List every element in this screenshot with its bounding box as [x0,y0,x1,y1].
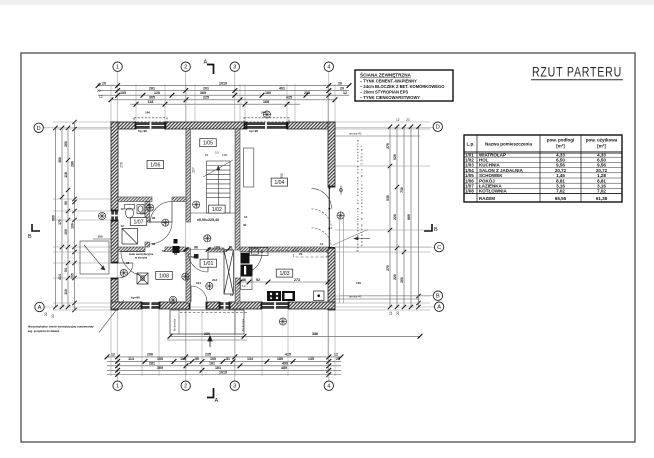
grid bubble 1 top [113,62,122,71]
vent grille south wall [169,296,176,303]
top dimension row axis spans [98,88,349,93]
north window 2 sashes [244,122,289,129]
svg-text:1019: 1019 [219,370,227,374]
kitchen fridge [241,253,250,264]
door boiler west swing [118,263,133,278]
right dimension column r3 [402,125,406,310]
svg-text:369: 369 [157,366,163,370]
extension lines left [53,122,111,310]
vent grille terrace [337,212,344,219]
svg-text:1/06: 1/06 [150,163,160,169]
grid bubble 3 top [230,62,239,71]
svg-text:12: 12 [396,118,400,122]
svg-text:54: 54 [64,268,68,272]
salon balcony arrow [354,237,370,240]
svg-text:535: 535 [386,195,390,201]
svg-text:20: 20 [97,83,101,87]
svg-text:12: 12 [334,353,338,357]
svg-text:pow. podłogi: pow. podłogi [547,138,575,143]
svg-text:– 24cm BLOCZEK Z BET. KOMÓRKO: – 24cm BLOCZEK Z BET. KOMÓRKOWEGO [360,84,445,89]
svg-text:101: 101 [196,281,201,285]
balcony door swing solid [312,189,332,209]
room label 1/07 lazienka [130,217,147,225]
svg-text:180: 180 [265,91,271,95]
bottom dimension row spans [107,363,341,368]
extension lines right [335,122,430,310]
vent grille above north wall [263,111,270,118]
svg-text:– 20cm STYROPIAN EPS: – 20cm STYROPIAN EPS [360,89,409,94]
kitchen stove black [267,291,281,301]
svg-text:278: 278 [120,162,124,168]
svg-text:20: 20 [102,81,106,85]
svg-text:B: B [434,227,438,233]
svg-text:100: 100 [210,357,216,361]
svg-text:91: 91 [205,153,209,157]
vent grille porch [279,318,286,325]
top dimension row window marks [130,102,300,107]
svg-text:±0,00=225,40: ±0,00=225,40 [197,218,219,222]
svg-text:– TYNK CIENKOWARSTWOWY: – TYNK CIENKOWARSTWOWY [360,95,420,100]
grid bubble D right [433,122,442,131]
vestibule wardrobe with X [224,250,233,294]
svg-text:kp=90: kp=90 [267,296,276,300]
svg-text:273: 273 [294,278,300,282]
right dimension column r5 [416,125,420,310]
svg-text:3: 3 [233,384,236,390]
svg-text:100: 100 [214,245,220,249]
vent grille outside west [98,212,105,219]
svg-text:1/03: 1/03 [279,271,289,277]
svg-text:ŚCIANA ZEWNĘTRZNA: ŚCIANA ZEWNĘTRZNA [360,72,412,78]
svg-text:1/08: 1/08 [465,189,474,194]
right dimension column r2 [395,125,399,310]
interior wall: bedroom/bathroom divider [118,197,152,202]
svg-text:100: 100 [64,229,68,235]
svg-text:20: 20 [97,89,101,93]
south kitchen window sashes [261,302,290,309]
bottom dimension row overall 1019 [107,372,341,377]
svg-text:414: 414 [58,274,62,280]
svg-text:118: 118 [64,172,68,178]
svg-text:489: 489 [281,366,287,370]
svg-text:180: 180 [277,357,283,361]
interior dimension specks [121,203,324,297]
bathroom toilet [125,205,135,219]
svg-text:260: 260 [400,277,404,283]
top dimension row walls [109,97,338,102]
svg-text:20: 20 [44,312,48,316]
svg-text:730: 730 [400,187,404,193]
grid bubble D left [34,123,43,132]
note leader line [99,300,124,333]
svg-text:11: 11 [320,242,324,246]
svg-text:12: 12 [111,353,115,357]
vent grille hall low [182,273,189,280]
boiler unit [173,246,180,253]
svg-text:demka 40: demka 40 [349,295,362,299]
svg-text:12: 12 [121,224,125,228]
vent grille corridor2 [162,219,169,226]
porch second step line [167,339,247,341]
svg-text:w stropie: w stropie [134,255,148,259]
porch dashed canopy line [180,312,247,314]
svg-text:pow. użytkowa: pow. użytkowa [586,138,618,143]
porch landing [170,310,244,334]
svg-text:90: 90 [64,201,68,205]
kitchen sink south black [282,291,295,301]
vent grille hall upper [193,201,200,208]
svg-text:51: 51 [229,245,233,249]
svg-text:1/05: 1/05 [203,141,213,147]
svg-text:3: 3 [233,65,236,71]
vent grille boiler [120,269,127,276]
svg-text:1019: 1019 [219,81,227,85]
top dimension row overall 1019 [96,83,352,88]
svg-text:14: 14 [230,293,234,297]
svg-text:RZUT PARTERU: RZUT PARTERU [532,65,622,80]
svg-text:280: 280 [70,161,74,167]
svg-text:20: 20 [299,252,303,256]
right dimension column r1 [388,125,392,310]
door bathroom swing [150,222,173,244]
svg-text:499: 499 [282,362,288,366]
bathroom washbasin [137,205,144,214]
svg-text:36: 36 [242,278,246,282]
grid bubble 2 bottom [181,381,190,390]
door vestibule-hall swing [188,252,208,272]
svg-text:201: 201 [203,86,209,90]
section marker A top [207,65,214,75]
vestibule top dims [184,247,233,252]
svg-text:8x demka: 8x demka [241,319,245,332]
svg-text:POKÓJ: POKÓJ [479,176,495,183]
svg-text:12: 12 [121,207,125,211]
svg-text:D: D [37,126,41,132]
interior wall: bathroom east [145,202,150,223]
svg-text:8x demka: 8x demka [173,319,177,332]
svg-text:1/08: 1/08 [159,273,169,279]
west window bathroom sashes [111,210,118,222]
svg-text:220: 220 [393,274,397,280]
svg-text:279: 279 [386,143,390,149]
svg-text:350: 350 [280,173,284,179]
svg-text:A: A [437,305,441,311]
svg-text:D: D [436,125,440,131]
svg-text:401: 401 [279,86,285,90]
svg-text:12: 12 [99,95,103,99]
svg-text:297: 297 [192,167,196,173]
room label 1/05 schowek [200,139,217,147]
left dimension column overall [53,126,57,310]
entrance door with swing arc [191,286,207,302]
right dimension column r4 [409,125,413,310]
room label 1/04 salon [271,178,288,186]
room label 1/01 wiatrolap [200,259,217,267]
svg-text:114: 114 [128,357,134,361]
grid axis lines vertical 1-4 [118,71,329,381]
svg-text:A: A [38,305,42,311]
grid bubble C right [434,242,443,251]
svg-text:118: 118 [180,357,186,361]
svg-text:205: 205 [304,91,310,95]
door boiler room swing [121,252,145,276]
svg-text:168: 168 [263,100,269,104]
bottom dimension row openings1 [105,355,344,360]
svg-text:20: 20 [406,118,410,122]
kitchen dashed cabinet block [294,249,328,257]
left dimension column openings [66,126,70,310]
top dimension row openings [98,93,349,98]
room label 1/06 pokoj [147,161,164,169]
stairs in schowek 1/05 [203,160,233,213]
svg-text:L.p.: L.p. [467,142,475,147]
exterior wall south (segments around openings) [111,302,335,309]
room label 1/08 kotlownia [156,271,173,279]
svg-text:B: B [28,234,32,240]
svg-text:52: 52 [191,255,195,259]
svg-text:386: 386 [312,332,318,336]
section marker A bottom [207,388,214,398]
grid axis lines horizontal A-D [43,128,434,307]
svg-text:52: 52 [174,252,178,256]
kitchen counter west [241,277,253,290]
exterior wall north (segments around windows) [111,122,335,129]
lintel above north window 2 [244,118,289,122]
svg-text:20: 20 [338,81,342,85]
svg-text:65,55: 65,55 [555,196,567,201]
kitchen upper cabinets dashed [271,250,328,252]
svg-text:12: 12 [389,311,393,315]
room schedule table [464,135,622,202]
svg-text:2: 2 [184,65,187,71]
section marker B right [424,224,432,231]
exterior wall east (segments around balcony door) [328,122,335,310]
svg-text:134: 134 [247,357,253,361]
boiler room floor drain [137,273,148,284]
svg-text:[m²]: [m²] [556,144,565,149]
svg-text:179: 179 [140,212,145,216]
svg-text:4: 4 [327,384,330,390]
lintel above north window 1 [134,118,167,122]
grid bubble A left [35,302,44,311]
interior wall: middle/east spine (salon+kitchen west) [236,129,241,250]
interior wall: bathroom/boiler divider [118,247,145,252]
svg-text:20: 20 [340,86,344,90]
porch dimension row [168,334,423,339]
kitchen internal dims [238,280,331,285]
svg-text:2: 2 [184,384,187,390]
svg-text:1/01: 1/01 [203,261,213,267]
svg-text:wg. projektu instalacji: wg. projektu instalacji [27,329,60,333]
svg-text:51: 51 [226,357,230,361]
door hall-kitchen swing [240,252,262,274]
legend box: wall construction note [355,70,453,101]
balcony door swing dashed 2 [312,228,332,248]
room label 1/02 hol [209,205,226,213]
svg-text:100: 100 [157,357,163,361]
svg-text:Nazwa pomieszczenia: Nazwa pomieszczenia [485,142,533,147]
svg-text:36: 36 [147,203,151,207]
svg-text:281: 281 [149,362,155,366]
exterior wall west (segments around openings) [111,122,118,310]
porch arrow [208,336,212,347]
svg-text:20: 20 [51,314,55,318]
svg-text:12: 12 [343,91,347,95]
svg-text:A: A [204,60,208,66]
kitchen appliance column [241,265,253,277]
balcony door hinge dots [328,187,330,249]
terrace vent duct line [335,136,420,299]
leader line to note [333,230,368,246]
svg-text:118: 118 [148,100,154,104]
svg-text:206: 206 [147,353,153,357]
interior wall: stair west / hall spine [186,129,191,222]
svg-text:56: 56 [162,249,166,253]
section marker B left [32,224,40,231]
svg-text:225: 225 [203,96,209,100]
svg-text:12: 12 [242,284,246,288]
balcony door swing dashed 1 [312,209,332,229]
interior wall: salon/kitchen divider [240,247,328,252]
svg-text:– TYNK CEMENT.-WAPIENNY: – TYNK CEMENT.-WAPIENNY [360,79,417,84]
svg-text:120: 120 [154,91,160,95]
left dimension column walls [72,120,76,312]
vent grille vestibule [206,282,213,289]
svg-text:hp=90: hp=90 [249,129,258,133]
svg-text:61,38: 61,38 [596,196,608,201]
valve symbol on terrace [340,186,343,195]
svg-text:281: 281 [149,86,155,90]
boiler flue dot [174,239,178,244]
bottom dimension row spans2 [107,368,341,373]
svg-text:1: 1 [116,65,119,71]
svg-text:hp=90: hp=90 [138,129,147,133]
svg-text:demka 40: demka 40 [349,132,362,136]
svg-text:1/07: 1/07 [133,219,143,225]
left dimension column spans [60,126,64,310]
stair landing edge [191,212,236,214]
grid bubble 4 top [324,62,333,71]
svg-text:146: 146 [145,111,150,115]
svg-text:235: 235 [205,353,211,357]
svg-text:20: 20 [336,357,340,361]
svg-text:1: 1 [116,384,119,390]
svg-text:1/02: 1/02 [212,207,222,213]
svg-text:90: 90 [194,245,198,249]
south window small sashes [219,302,231,309]
svg-text:100: 100 [222,153,227,157]
svg-text:260: 260 [64,141,68,147]
svg-text:380: 380 [58,157,62,163]
svg-text:1/04: 1/04 [274,180,284,186]
vent grille corridor [147,204,154,211]
svg-text:150: 150 [356,281,361,285]
svg-text:RAZEM: RAZEM [479,196,495,201]
svg-text:305: 305 [149,96,155,100]
svg-text:92: 92 [256,278,260,282]
terrace edge lines [340,216,344,303]
svg-text:C: C [437,245,441,251]
grid bubble 3 bottom [230,381,239,390]
svg-text:Niezamykalny otwór wentylacyjn: Niezamykalny otwór wentylacyjny nawiewow… [28,325,94,329]
grid bubble A right [434,302,443,311]
grid bubble 1 bottom [113,381,122,390]
svg-text:135: 135 [308,357,314,361]
north window 1 sashes [135,122,167,129]
grid bubble 2 top [181,62,190,71]
grid bubble B right [433,291,442,300]
opening jamb caps [111,122,335,309]
svg-text:12: 12 [244,215,248,219]
svg-text:110: 110 [64,289,68,295]
svg-text:190: 190 [70,223,74,229]
svg-text:KOTŁOWNIA: KOTŁOWNIA [479,189,507,194]
bathroom shower tray [122,229,138,245]
grid bubble 4 bottom [324,381,333,390]
svg-text:10: 10 [215,151,219,155]
svg-text:526: 526 [393,154,397,160]
sheet frame [21,53,635,442]
svg-text:20: 20 [396,311,400,315]
svg-text:90: 90 [126,261,130,265]
svg-text:50: 50 [195,357,199,361]
svg-text:kp=90: kp=90 [131,296,140,300]
svg-text:90: 90 [152,216,156,220]
svg-text:181: 181 [209,362,215,366]
extension lines bottom [111,310,335,376]
svg-text:220: 220 [393,214,397,220]
svg-text:[m²]: [m²] [597,144,606,149]
svg-text:92: 92 [152,242,156,246]
extension lines top [111,84,335,122]
kitchen sink top [250,248,269,256]
svg-text:369: 369 [200,91,206,95]
svg-text:30: 30 [243,223,247,227]
exterior side landing west [80,239,111,274]
svg-text:B: B [436,294,440,300]
salon wardrobe along wall [244,148,254,187]
svg-text:212: 212 [212,278,217,282]
interior wall: hall/vestibule divider [208,248,224,252]
south window 1 sashes [141,302,161,309]
room label 1/03 kuchnia [276,269,293,277]
vestibule radiator mark [194,254,199,259]
svg-text:7,02: 7,02 [556,189,565,194]
balcony door closed leaf line [328,187,330,248]
bottom dimension row openings2 [107,359,341,364]
svg-text:270: 270 [386,265,390,271]
svg-text:7,02: 7,02 [597,189,606,194]
vent grille vestibule top [204,235,211,242]
door bedroom swing [150,202,172,226]
svg-text:100: 100 [97,235,102,239]
svg-text:4: 4 [327,65,330,71]
kitchen table with dot [314,291,325,301]
svg-text:105: 105 [120,91,126,95]
svg-text:869: 869 [407,214,411,220]
svg-text:A: A [215,398,219,404]
